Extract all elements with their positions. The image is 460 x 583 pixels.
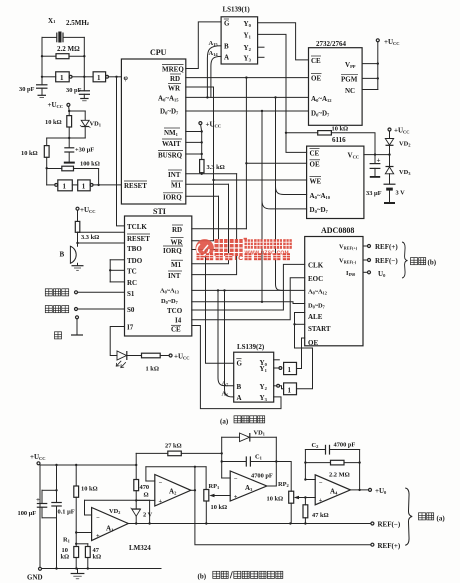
terminal U0 [363,270,386,278]
svg-text:VD1: VD1 [90,121,102,128]
svg-text:CLK: CLK [308,261,324,269]
svg-text:S0: S0 [127,306,135,314]
capacitor +30uF [64,138,94,164]
svg-text:RESET: RESET [124,182,147,190]
wire STI M1 vertical [192,184,229,263]
wire A4 output [350,450,368,492]
svg-text:CPU: CPU [150,48,167,57]
terminal GND [27,567,43,581]
svg-text:−: − [159,480,163,487]
wire A2 output to REF(+) [191,467,371,545]
6116 pin CE [310,149,320,158]
EPROM 2732/2764 [309,40,363,125]
svg-text:ADC0808: ADC0808 [321,226,354,235]
potentiometer RP1 [204,483,227,524]
svg-text:−: − [96,515,100,522]
svg-text:C2: C2 [312,442,320,449]
inverter gate 5 [274,362,297,374]
op-amp A1 [92,508,129,541]
resistor 100k [47,161,100,187]
svg-text:IORQ: IORQ [163,194,182,202]
terminal REF(-) out [371,521,401,529]
RAM 6116 [307,136,364,219]
svg-text:10 kΩ: 10 kΩ [21,150,38,157]
svg-text:VD3: VD3 [399,169,411,176]
svg-text:30 pF: 30 pF [19,86,35,93]
svg-text:kΩ: kΩ [93,554,102,561]
wire A bus row [186,96,309,98]
terminal serial-out [45,306,124,313]
svg-text:−: − [319,480,323,487]
capacitor 30pF right [66,87,90,101]
svg-text:CE: CE [310,149,320,157]
svg-text:100 μF: 100 μF [18,510,37,517]
wire RD row (to 2732 OE and 6116 OE) [186,76,309,78]
buzzer B [60,246,84,270]
wire IORQ row [186,195,219,197]
wire RP1 wiper to A3 plus [216,495,230,497]
svg-text:RD: RD [172,226,182,234]
svg-text:2732/2764: 2732/2764 [316,40,346,48]
svg-text:VD1: VD1 [254,430,265,437]
wire D bus vertical [261,111,307,303]
wire Y0 to 2732 CE [258,23,309,60]
svg-text:I4: I4 [175,317,182,325]
wire A bus to STI and ADC [192,289,305,291]
power +Ucc terminal (2732) [376,38,399,46]
svg-text:TDO: TDO [127,257,143,265]
wire TDO TC RC tie [109,260,125,282]
svg-text:REF(+): REF(+) [375,243,398,251]
svg-text:(a): (a) [220,417,229,425]
svg-text:100 kΩ: 100 kΩ [80,161,100,168]
wire to STI RESET [78,231,125,233]
svg-text:3 V: 3 V [396,190,406,197]
wire left osc rail [41,37,43,84]
svg-text:STI: STI [153,207,166,216]
svg-text:47 kΩ: 47 kΩ [312,512,329,519]
svg-text:REF(−): REF(−) [375,257,398,265]
brace to diagram b [402,242,437,278]
svg-text:B: B [237,383,242,391]
wire Y2 stub [258,46,264,48]
2732 pin OE [311,74,322,83]
ADC0808 block [305,226,363,346]
wire Y1 to 6116 CE [258,34,307,152]
watermark slogan [197,253,290,262]
svg-text:B: B [224,43,229,51]
svg-text:VD2: VD2 [399,141,411,148]
svg-text:1 kΩ: 1 kΩ [146,366,159,373]
svg-text:G: G [237,360,243,368]
wire STI RD row [192,228,247,230]
resistor 1k (LED) [142,353,170,372]
svg-text:I C: I C [235,255,244,262]
svg-text:2.5MHz: 2.5MHz [66,19,90,27]
CPU block [121,48,185,204]
svg-text:2.2 MΩ: 2.2 MΩ [57,45,80,53]
inverter gate 3 (reset) [47,168,73,191]
svg-text:LM324: LM324 [129,544,151,552]
wire A1 output bus REF(-) [128,522,371,524]
svg-text:D0~D7: D0~D7 [161,298,178,305]
svg-text:2.2 MΩ: 2.2 MΩ [329,472,350,479]
svg-text:(b): (b) [198,573,207,581]
terminal REF(+) out [371,542,401,550]
terminal serial-in [45,289,124,296]
caption (b) [198,571,283,580]
svg-text:33 μF: 33 μF [366,190,382,197]
svg-text:1: 1 [63,183,67,191]
wire D bus to STI and ADC [192,302,305,304]
watermark logo [196,239,214,257]
svg-text:10 kΩ: 10 kΩ [267,496,284,503]
op-amp A2 [155,475,191,507]
2732 pin PGM [341,75,358,84]
CPU pin A0-A15 [158,95,179,103]
svg-text:6116: 6116 [332,136,346,144]
watermark weiku characters [215,238,248,256]
svg-text:RD: RD [170,75,180,83]
svg-text:EOC: EOC [308,275,323,283]
STI pin IORQ [163,246,183,255]
STI pin CE (right) [171,325,181,333]
svg-text:B: B [60,251,65,259]
svg-text:CE: CE [171,325,181,333]
svg-text:C1: C1 [255,454,263,461]
wire BUSRQ row [186,153,203,160]
capacitor 33uF [366,155,382,197]
CPU pin MREQ [162,65,184,74]
svg-text:REF(−): REF(−) [378,521,401,529]
svg-text:A: A [224,53,229,61]
svg-text:RP1: RP1 [209,483,221,490]
ground symbol (analog) [71,569,85,579]
CPU pin NMI [164,128,180,137]
CPU pin M1 [171,181,183,190]
svg-text:MREQ: MREQ [162,66,184,74]
svg-text:+: + [234,494,238,501]
wire inv5 to ADC OE [297,338,305,369]
svg-text:−: − [234,476,238,483]
svg-text:+: + [319,497,323,504]
svg-text:A0~A13: A0~A13 [160,287,179,294]
wire WR row (to 6116 WE) [186,87,307,181]
svg-text:NC: NC [345,87,355,95]
svg-text:VREF(+): VREF(+) [339,244,358,251]
resistor 470 [134,480,149,509]
wire 470 column top [135,453,137,479]
capacitor 100uF [18,465,58,518]
diode VD1 (zener) [68,111,102,139]
power +Ucc terminal (battery backup) [388,127,410,139]
inverter gate 4 (reset) [72,180,121,191]
wire A1 feedback loop [85,500,151,524]
CPU pin IORQ [163,193,183,202]
capacitor 30pF left [19,84,48,98]
power +Ucc terminal (buzzer pullup) [76,206,96,221]
svg-text:R1: R1 [63,537,71,544]
inverter gate 6 [274,383,297,395]
STI pin RD [172,225,183,234]
resistor 3.3k (buzzer) [75,221,99,246]
resistor 2.2M [41,45,86,59]
crystal X1 [42,17,90,43]
svg-text:OE: OE [308,339,318,347]
capacitor C2 4700pF [305,442,359,455]
op-amp A3 [230,471,273,501]
svg-text:A: A [237,394,242,402]
resistor R1 10k (thermistor) [61,537,79,569]
wire D bus row [186,110,309,112]
wire A3 minus node [221,437,231,478]
wire MREQ to LS139(1) G [186,22,221,69]
wire Vpp PGM NC to +Ucc [362,42,379,90]
diode VD2 (backup) [385,139,411,156]
svg-text:10 kΩ: 10 kΩ [332,126,349,133]
svg-text:WR: WR [171,238,184,246]
STI block [125,207,192,336]
svg-text:10 kΩ: 10 kΩ [45,119,62,126]
wire I4 to ADC EOC [192,278,305,320]
power +Ucc pullup INT [199,121,221,132]
wire 6116 Vcc [364,154,390,156]
svg-text:TBO: TBO [127,245,142,253]
diode VD2 zener 2V [131,508,153,524]
svg-text:A0~A12: A0~A12 [308,289,327,296]
wire inv6 to ADC ALE START [293,313,312,389]
terminal +U0 [369,487,388,495]
caption (a) [220,416,265,426]
wire TCO to ADC CLK [192,264,305,310]
wire M1 row [186,183,229,185]
resistor 10k (pullup at VD1) [45,111,72,138]
svg-text:S1: S1 [127,290,135,298]
svg-text:M1: M1 [171,261,182,269]
svg-text:CE: CE [311,57,321,65]
wire A2 feedback [146,466,206,490]
wire Y0 stub [274,359,280,361]
svg-text:VD2: VD2 [109,508,120,515]
svg-text:IORQ: IORQ [163,247,182,255]
CPU pin WAIT [162,139,182,148]
STI pin INT (right) [168,271,182,280]
wire STI IORQ vertical [192,196,219,250]
svg-text:VREF(-): VREF(-) [339,258,357,265]
STI pin WR [171,237,184,246]
node A14 tap [209,50,222,97]
resistor 3.3k (INT pullup) [200,160,225,176]
svg-text:10 kΩ: 10 kΩ [81,486,98,493]
resistor 2.2M (A4 feedback) [305,460,359,478]
svg-text:RESET: RESET [127,235,150,243]
svg-text:G: G [224,20,230,28]
CPU pin RD [170,74,181,83]
diode VD3 (battery isolation) [385,155,411,184]
wire ground rail [42,567,162,569]
svg-text:+: + [96,533,100,540]
wire right osc rail [83,37,85,90]
wire reset RC node [47,137,69,139]
wire WAIT row [186,141,203,154]
resistor 47k (A4) [303,496,329,523]
svg-text:470: 470 [140,484,150,491]
svg-text:START: START [308,325,331,333]
wire INT row [186,173,237,175]
wire RP2 wiper to A4 plus [299,497,315,499]
svg-text:IIN0: IIN0 [346,270,355,277]
svg-text:kΩ: kΩ [61,554,70,561]
svg-text:OE: OE [311,75,321,83]
node A15 tap [207,40,221,97]
svg-text:TC: TC [127,267,137,275]
svg-text:1: 1 [288,366,292,374]
wire 2V node to A2 plus [136,499,155,501]
svg-text:BUSRQ: BUSRQ [158,152,183,160]
wire A3 out to RP2 top [276,462,291,492]
wire Y3 stub [258,56,264,58]
wire LS139(2) G to IORQ [206,250,234,364]
wire +Ucc rail [40,464,137,466]
CPU pin D0-D7 [160,108,179,116]
power +Ucc terminal (LED) [169,353,189,361]
svg-text:PGM: PGM [341,76,358,84]
watermark dianzi shichang wang [245,239,292,248]
svg-text:1: 1 [60,74,64,82]
svg-text:10 kΩ: 10 kΩ [211,504,228,511]
wire A3 output node [267,437,278,486]
svg-text:TCO: TCO [167,307,183,315]
inverter gate 1 [41,72,86,82]
svg-text:27 kΩ: 27 kΩ [165,443,182,450]
svg-text:(a): (a) [437,515,446,523]
battery 3V [384,184,406,204]
capacitor 0.1uF [51,490,74,568]
LED indicator [110,327,141,368]
resistor 27k [136,443,223,456]
svg-text:4700 pF: 4700 pF [334,442,356,449]
svg-text:I7: I7 [127,323,134,331]
svg-text:GND: GND [27,574,43,582]
wire A4 minus node [304,450,315,481]
6116 pin OE [310,160,321,169]
brace to diagram a [405,488,445,545]
wire STI WR vertical [192,87,214,241]
svg-text:OE: OE [310,161,320,169]
wire to STI TBO [78,242,125,244]
wire NMI row [186,130,203,142]
terminal REF(-) [363,257,398,265]
STI pin M1 (right) [171,260,183,269]
svg-text:φ: φ [124,74,129,82]
decoder LS139(1) [221,6,258,65]
CPU pin BUSRQ [158,151,183,160]
6116 pin WE [310,176,322,185]
svg-text:1: 1 [288,386,292,394]
terminal ground (di) [55,316,84,339]
wire A1 plus input [76,532,91,534]
svg-text:A14: A14 [209,50,219,57]
diode VD1 (A3 feedback) [222,430,277,442]
op-amp A4 [315,475,350,505]
terminal REF(+) [363,243,398,251]
wire A6 tap [222,289,234,397]
svg-text:TCLK: TCLK [127,223,147,231]
svg-text:4700 pF: 4700 pF [251,473,273,480]
power +Ucc terminal (VD1 pull-up) [48,101,71,112]
svg-text:RC: RC [127,279,137,287]
CPU pin WR [168,84,181,93]
svg-text:0.1 μF: 0.1 μF [58,509,75,516]
svg-text:+30 μF: +30 μF [75,147,94,154]
resistor 10k (reset) [21,146,49,170]
wire left supply drop [39,465,41,568]
svg-text:WAIT: WAIT [162,140,181,148]
STI pin RESET (left) [127,234,150,243]
capacitor C1 4700pF [222,454,277,467]
svg-text:+: + [159,498,163,505]
2732 pin CE [311,56,321,65]
wire STI INT vertical [192,174,237,275]
wire phi to TCLK [117,77,125,226]
svg-text:1: 1 [82,183,86,191]
wire A7 tap [217,289,234,387]
resistor 10k (bridge top) [74,465,98,547]
svg-text:RP2: RP2 [278,481,290,488]
svg-text:M1: M1 [171,182,182,190]
svg-text:REF(+): REF(+) [378,542,401,550]
CPU pin RESET [124,181,147,190]
wire A bus vertical [276,97,307,290]
decoder LS139(2) [234,343,274,402]
CPU pin phi [124,74,129,82]
inverter gate 2 [84,72,121,82]
CPU pin INT [168,170,182,179]
svg-text:LS139(1): LS139(1) [223,6,251,14]
svg-text:INT: INT [168,171,181,179]
power +Ucc terminal (analog) [30,453,46,465]
svg-text:Ω: Ω [144,492,149,499]
svg-text:LS139(2): LS139(2) [237,343,265,351]
svg-text:2 V: 2 V [143,512,153,519]
resistor 10k (6116 CE pullup) [286,126,376,156]
svg-text:X1: X1 [48,17,56,25]
potentiometer RP2 [267,481,300,524]
svg-text:INT: INT [168,272,181,280]
svg-text:WR: WR [168,85,181,93]
svg-text:1: 1 [97,74,101,82]
svg-text:D0~D7: D0~D7 [308,302,325,309]
svg-text:3.3 kΩ: 3.3 kΩ [81,234,99,241]
svg-text:3.3 kΩ: 3.3 kΩ [207,164,225,171]
svg-text:(b): (b) [428,258,437,266]
wire STI CE to LS139(2) Y3 [192,326,281,409]
resistor 47k (bridge) [76,544,101,569]
svg-text:+: + [36,496,40,504]
wire RD vertical to 6116 OE and STI RD [245,78,306,229]
svg-text:ALE: ALE [308,313,323,321]
svg-text:WE: WE [310,177,322,185]
